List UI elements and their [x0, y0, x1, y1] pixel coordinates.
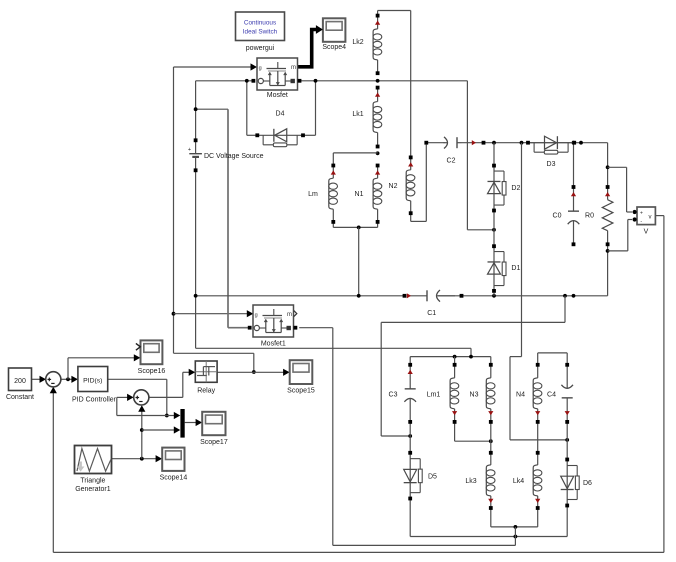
wire main top rail y=80.8	[196, 80, 468, 82]
terminal Lk4 top	[536, 451, 540, 455]
inductor Lm1	[450, 365, 459, 422]
svg-text:Relay: Relay	[197, 388, 215, 395]
wire transformer top link y=10.5	[378, 10, 411, 12]
terminal DC source minus	[194, 168, 198, 172]
terminal D5 top	[408, 451, 412, 455]
wire C2 branch drop (x=522)	[510, 143, 567, 440]
terminal C1 left	[403, 294, 407, 298]
diode D4	[257, 129, 303, 147]
svg-text:Generator1: Generator1	[75, 486, 111, 493]
label C4	[547, 392, 556, 399]
wire drain feed branch	[196, 108, 228, 110]
node C2 line branch junction	[520, 141, 524, 145]
wire DC source positive rail riser (x=195.6)	[195, 81, 197, 349]
wire Mosfet gate horizontal	[174, 66, 252, 68]
current arrow C2	[472, 140, 476, 145]
scope Scope16	[141, 340, 163, 364]
label Constant	[6, 394, 34, 401]
wire D4 right leg	[303, 81, 316, 136]
label N3	[470, 392, 479, 399]
terminal D2 bottom	[492, 209, 496, 213]
svg-text:Scope4: Scope4	[322, 44, 346, 51]
terminal N2 top	[409, 156, 413, 160]
label N1	[355, 191, 364, 198]
svg-text:g: g	[259, 66, 262, 72]
terminal R0 bottom	[606, 242, 610, 246]
mosfet U1 Mosfet	[257, 58, 298, 90]
current arrow Lk4	[535, 499, 540, 503]
arrowhead into Mux upper	[174, 412, 181, 419]
stub Mosfet1 m unconnected	[294, 311, 297, 317]
svg-text:Scope15: Scope15	[287, 388, 315, 395]
svg-text:PID Controller: PID Controller	[72, 396, 117, 403]
wire relay-to-gates riser	[174, 353, 254, 372]
wire DC negative to C3 zone top	[196, 348, 471, 356]
powergui block	[236, 12, 285, 41]
svg-text:Scope14: Scope14	[160, 474, 188, 481]
terminal D3 left	[526, 141, 530, 145]
node C0 top junction	[572, 141, 576, 145]
terminal N4 top	[536, 363, 540, 367]
svg-text:Lk2: Lk2	[352, 39, 363, 46]
terminal C3 bottom	[408, 420, 412, 424]
mux Mux1	[180, 409, 184, 438]
wire N4 to Lk4 link	[537, 422, 539, 453]
arrowhead into Scope15	[283, 369, 290, 376]
svg-text:D5: D5	[428, 474, 437, 481]
svg-text:C4: C4	[547, 392, 556, 399]
svg-text:C1: C1	[427, 310, 436, 317]
wire N3 to Lk3 link	[490, 422, 492, 453]
node triangle output junction	[140, 457, 144, 461]
inductor Lm	[329, 166, 338, 222]
svg-text:DC Voltage Source: DC Voltage Source	[204, 153, 264, 160]
arrowhead into Sum2 bottom	[138, 405, 145, 412]
wire D2 bottom stub	[493, 211, 495, 230]
inductor Lk3	[486, 453, 495, 508]
label D1	[511, 265, 520, 272]
label C0	[553, 213, 562, 220]
arrowhead into Scope14	[156, 455, 163, 462]
node Lm1 top junction	[453, 355, 457, 359]
svg-text:200: 200	[14, 378, 26, 385]
wire D2-D1 midpoint link	[467, 229, 494, 231]
terminal N3 bottom	[489, 420, 493, 424]
capacitor C0	[568, 187, 580, 244]
svg-text:+: +	[640, 211, 643, 217]
arrowhead into Relay	[189, 369, 196, 376]
node PID output junction	[165, 414, 169, 418]
svg-text:Continuous: Continuous	[244, 20, 276, 27]
arrowhead into Sum1 bottom	[50, 387, 57, 394]
node voltmeter minus tap	[606, 249, 610, 253]
resistor R0	[602, 187, 613, 244]
terminal D1 bottom	[492, 289, 496, 293]
current arrow C1	[407, 293, 411, 298]
node Lk1-N1 junction	[376, 151, 380, 155]
svg-text:N1: N1	[355, 191, 364, 198]
current arrow C4	[565, 411, 570, 415]
wire PID to mux	[167, 415, 174, 417]
node Lk2 rail junction	[376, 79, 380, 83]
terminal Lm top	[331, 164, 335, 168]
terminal D6 bottom	[565, 504, 569, 508]
svg-text:Lk3: Lk3	[465, 478, 476, 485]
wire D2 top stub	[493, 143, 495, 166]
terminal D4 left	[255, 133, 259, 137]
wire thick Mosfet m to Scope4	[296, 25, 323, 67]
terminal Lm bottom	[331, 220, 335, 224]
svg-text:N2: N2	[389, 183, 398, 190]
svg-text:Scope17: Scope17	[200, 439, 228, 446]
svg-text:+: +	[188, 147, 191, 153]
wire R0 bottom segment	[607, 244, 609, 295]
node DC positive branch	[194, 107, 198, 111]
current arrow N4	[535, 411, 540, 415]
svg-text:V: V	[644, 229, 649, 236]
node triangle mux branch	[140, 428, 144, 432]
node transformer return junction	[357, 294, 361, 298]
terminal C2 left	[424, 141, 428, 145]
terminal D3 right	[572, 141, 576, 145]
node DC negative rail junction	[194, 294, 198, 298]
svg-text:D3: D3	[547, 161, 556, 168]
terminal N1 bottom	[376, 220, 380, 224]
terminal D6 top	[565, 458, 569, 462]
wire D5 D6 bottom link	[410, 499, 567, 537]
terminal C0 top	[572, 185, 576, 189]
terminal Mosfet1 drain	[248, 326, 252, 330]
wire C0 feed drop	[573, 143, 575, 187]
terminal N4 bottom	[536, 420, 540, 424]
terminal Lk2 bottom	[376, 71, 380, 75]
svg-text:Constant: Constant	[6, 394, 34, 401]
scope Scope17	[202, 412, 225, 435]
wire C3 bottom to D5	[409, 422, 411, 453]
current arrow N1	[375, 170, 380, 174]
terminal N3 top	[489, 363, 493, 367]
inductor Lk2	[373, 16, 382, 74]
wire triangle to mux	[142, 429, 174, 431]
arrowhead into Mosfet1 g	[247, 310, 254, 317]
label DC Voltage Source	[204, 153, 264, 160]
wire bottom rail y=295.8	[196, 295, 608, 297]
scope Scope14	[162, 448, 184, 471]
label R0	[585, 213, 594, 220]
terminal Lm1 bottom	[453, 420, 457, 424]
label C1	[427, 310, 436, 317]
relay block Relay	[195, 361, 217, 382]
inductor Lk4	[533, 453, 542, 508]
label Mosfet1	[261, 341, 286, 348]
wire PID output	[108, 379, 167, 415]
node D3 output junction	[579, 141, 583, 145]
label D3	[547, 161, 556, 168]
label N2	[389, 183, 398, 190]
current arrow Lk1	[375, 93, 380, 97]
svg-text:Lm1: Lm1	[427, 392, 441, 399]
node Sum1 output junction	[66, 377, 70, 381]
inductor Lk1	[373, 88, 382, 147]
terminal D5 bottom	[408, 497, 412, 501]
terminal Lk4 bottom	[536, 506, 540, 510]
svg-text:N3: N3	[470, 392, 479, 399]
terminal Lk3 bottom	[489, 506, 493, 510]
label D4	[276, 111, 285, 118]
arrowhead into Scope17	[196, 419, 203, 426]
node D2 top junction	[492, 141, 496, 145]
svg-text:C0: C0	[553, 213, 562, 220]
arrowhead into Scope16	[134, 354, 141, 361]
label PID Controller	[72, 396, 117, 403]
current arrow C3	[408, 370, 413, 374]
node C3 zone feed junction	[563, 294, 567, 298]
current arrow Lm1	[452, 411, 457, 415]
svg-text:N4: N4	[516, 392, 525, 399]
wire C2 output segment	[462, 142, 608, 144]
svg-text:Lk4: Lk4	[513, 478, 524, 485]
terminal Lm1 top	[453, 363, 457, 367]
wire Mosfet1 gate horizontal	[174, 313, 248, 315]
sum block Sum2	[134, 390, 149, 405]
voltmeter V	[633, 207, 656, 225]
current arrow Lm	[331, 170, 336, 174]
svg-text:-: -	[640, 218, 642, 224]
label Triangle Generator1 line1	[80, 477, 105, 484]
terminal C4 bottom	[565, 420, 569, 424]
wire feedback bottom run	[53, 551, 664, 553]
label N4	[516, 392, 525, 399]
arrowhead into PID	[71, 376, 78, 383]
terminal Lk1 top	[376, 86, 380, 90]
wire N2 riser (x=410.7)	[410, 11, 412, 158]
diode D6	[561, 460, 580, 506]
capacitor C1	[408, 290, 461, 302]
svg-text:D4: D4	[276, 111, 285, 118]
node Lk bottom junction	[514, 525, 518, 529]
wire Lm1 bottom jog	[455, 422, 491, 441]
node C4-D6 junction	[565, 438, 569, 442]
terminal N2 bottom	[409, 211, 413, 215]
wire Mosfet1 drain feed (x=228)	[228, 109, 250, 328]
diode D3	[528, 136, 574, 154]
arrowhead into Sum1	[40, 376, 47, 383]
terminal C2 right	[482, 141, 486, 145]
wire triangle to Sum2 riser	[141, 411, 143, 459]
label C3	[389, 392, 398, 399]
wire N4 C4 top link	[538, 353, 568, 365]
wire secondary return to Mosfet1 source	[299, 328, 515, 546]
svg-text:Ideal Switch: Ideal Switch	[243, 29, 278, 36]
svg-text:C2: C2	[447, 158, 456, 165]
node D1 bottom junction	[492, 294, 496, 298]
current arrow N2	[408, 162, 413, 166]
label D2	[511, 185, 520, 192]
svg-text:m: m	[287, 312, 292, 318]
wire voltmeter output drop	[655, 216, 664, 553]
label D5	[428, 474, 437, 481]
wire secondary return stub	[514, 527, 516, 546]
wire Lm N1 bottom link	[333, 222, 377, 228]
label C2	[447, 158, 456, 165]
capacitor C2	[426, 137, 461, 149]
terminal C0 bottom	[572, 242, 576, 246]
terminal C4 top	[565, 363, 569, 367]
terminal C3 top	[408, 363, 412, 367]
terminal D2 top	[492, 164, 496, 168]
wire R0 feed drop	[607, 143, 609, 187]
node transformer bottom junction	[357, 226, 361, 230]
wire Triangle to Scope14	[112, 458, 157, 460]
label Triangle Generator1 line2	[75, 486, 111, 493]
scope Scope4	[323, 18, 346, 42]
label Lk4	[513, 478, 524, 485]
wire C3 zone feed	[381, 296, 565, 436]
node C3-D5 junction	[408, 434, 412, 438]
wire secondary rail drop (x=467.4)	[466, 81, 468, 230]
wire D4 left leg	[247, 81, 256, 136]
label Relay	[197, 388, 215, 395]
node D4 left junction	[245, 79, 249, 83]
node voltmeter plus tap	[606, 165, 610, 169]
wire Lm top link	[333, 153, 377, 166]
terminal Lk2 top	[376, 14, 380, 18]
wire N2 bottom jog	[411, 145, 427, 222]
terminal Mosfet source	[298, 79, 302, 83]
wire gate feed top (relay output to Mosfet gate, x=173.5)	[173, 67, 175, 353]
wire Mux to Scope17	[185, 422, 196, 424]
node diode bottom junction	[514, 535, 518, 539]
label Mosfet	[267, 92, 288, 99]
wire Scope16 tap	[68, 358, 134, 380]
label Lm	[308, 191, 318, 198]
svg-text:powergui: powergui	[246, 45, 275, 52]
diode D2	[488, 166, 507, 211]
sum block Sum1	[46, 372, 61, 387]
svg-text:R0: R0	[585, 213, 594, 220]
svg-text:C3: C3	[389, 392, 398, 399]
node C3 zone top feed junction	[469, 355, 473, 359]
diode D1	[488, 246, 507, 291]
current arrow C0	[571, 192, 576, 196]
label Lk1	[352, 111, 363, 118]
label Scope14	[160, 474, 188, 481]
arrowhead into Mosfet g	[251, 63, 258, 70]
current arrow R0	[605, 192, 610, 196]
label Scope16	[138, 368, 166, 375]
label Lm1	[427, 392, 441, 399]
terminal D4 right	[301, 133, 305, 137]
label D6	[583, 480, 592, 487]
wire transformer return riser	[358, 227, 360, 295]
svg-text:g: g	[255, 313, 258, 319]
label powergui	[246, 45, 275, 52]
wire Constant to Sum1	[32, 378, 41, 380]
wire voltmeter plus	[608, 167, 632, 212]
port mark Scope16 upper	[136, 343, 140, 350]
capacitor C3	[404, 365, 416, 422]
node D2-D1 midpoint	[492, 228, 496, 232]
wire feedback riser to Sum1	[52, 393, 54, 553]
label Lk2	[352, 39, 363, 46]
svg-text:Mosfet: Mosfet	[267, 92, 288, 99]
arrowhead into Mux lower	[174, 426, 181, 433]
inductor N4	[533, 365, 542, 422]
wire D1 bottom stub	[493, 293, 495, 296]
wire Lm1 top stub	[454, 357, 456, 365]
svg-text:Lk1: Lk1	[352, 111, 363, 118]
wire Lk3 Lk4 bottom link	[491, 508, 538, 527]
label Scope4	[322, 44, 346, 51]
terminal DC source plus	[194, 138, 198, 142]
constant block 200	[9, 368, 32, 391]
svg-text:D2: D2	[511, 185, 520, 192]
svg-text:D1: D1	[511, 265, 520, 272]
svg-text:Triangle: Triangle	[80, 477, 105, 484]
battery DC Voltage Source	[188, 146, 202, 163]
terminal N1 top	[376, 164, 380, 168]
capacitor C4	[561, 365, 573, 422]
wire Sum1 to PID	[61, 378, 72, 380]
node N3 bottom junction	[489, 439, 493, 443]
mosfet U2 Mosfet1	[253, 305, 294, 337]
terminal C1 right	[460, 294, 464, 298]
label Lk3	[465, 478, 476, 485]
svg-text:D6: D6	[583, 480, 592, 487]
current arrow N3	[488, 411, 493, 415]
inductor N1	[373, 166, 382, 222]
current arrow Lk3	[488, 499, 493, 503]
label Scope15	[287, 388, 315, 395]
arrowhead into Sum2	[127, 394, 134, 401]
wire Lk2 top stub	[377, 11, 379, 16]
svg-text:v: v	[649, 215, 652, 221]
triangle generator block	[75, 446, 112, 474]
wire Relay output to Scope15	[217, 371, 284, 373]
svg-text:PID(s): PID(s)	[83, 377, 102, 384]
svg-text:m: m	[291, 65, 296, 71]
wire PID output to Sum2	[117, 397, 167, 415]
terminal Mosfet drain	[252, 79, 256, 83]
terminal Mosfet1 source	[294, 326, 298, 330]
inductor N3	[486, 365, 495, 422]
svg-text:Lm: Lm	[308, 191, 318, 198]
terminal Lk1 bottom	[376, 145, 380, 149]
node relay output junction	[252, 370, 256, 374]
label Scope17	[200, 439, 228, 446]
wire voltmeter minus	[608, 220, 632, 251]
inductor N2	[406, 157, 415, 213]
diode D5	[404, 453, 422, 499]
current arrow Lk2	[375, 21, 380, 25]
wire D1 top stub	[493, 230, 495, 246]
node gate branch to Mosfet1	[172, 312, 176, 316]
pid block PID Controller	[78, 367, 108, 392]
scope Scope15	[290, 360, 313, 384]
wire Sum2 to Relay	[149, 372, 189, 397]
node C0 bottom junction	[572, 294, 576, 298]
svg-text:Mosfet1: Mosfet1	[261, 341, 286, 348]
wire C4 bottom to D6	[566, 422, 568, 460]
terminal R0 top	[606, 185, 610, 189]
wire C3 zone top link	[410, 357, 491, 365]
terminal Lk3 top	[489, 451, 493, 455]
terminal D1 top	[492, 244, 496, 248]
label V	[644, 229, 649, 236]
node D4 right junction	[314, 79, 318, 83]
svg-text:Scope16: Scope16	[138, 368, 166, 375]
